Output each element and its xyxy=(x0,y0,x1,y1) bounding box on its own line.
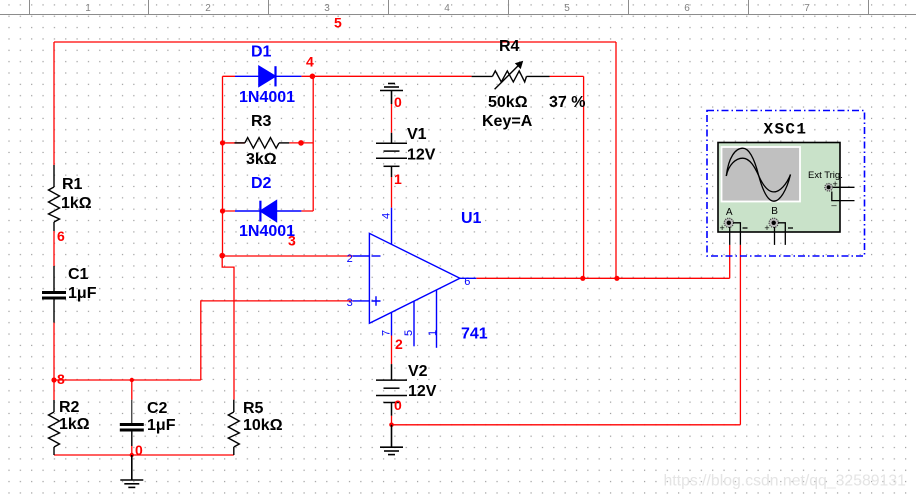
scope channel B terminal xyxy=(764,206,793,245)
svg-text:6: 6 xyxy=(464,276,470,288)
svg-text:https://blog.csdn.net/qq_32589: https://blog.csdn.net/qq_32589131 xyxy=(664,473,907,490)
svg-text:37 %: 37 % xyxy=(549,94,585,111)
wire R3 row xyxy=(289,142,313,144)
svg-text:5: 5 xyxy=(564,3,570,14)
svg-text:4: 4 xyxy=(444,3,450,14)
svg-text:D1: D1 xyxy=(251,44,272,61)
svg-text:XSC1: XSC1 xyxy=(764,121,808,139)
junction C2 top xyxy=(130,378,134,382)
capacitor C2 xyxy=(120,400,144,446)
capacitor C1 xyxy=(42,266,66,323)
svg-text:741: 741 xyxy=(461,326,488,343)
svg-text:R5: R5 xyxy=(243,400,264,417)
node 0 junction V2 ground xyxy=(389,423,394,428)
svg-text:5: 5 xyxy=(334,15,342,31)
svg-text:R3: R3 xyxy=(251,113,272,130)
scope ext trig terminal xyxy=(825,179,855,206)
wire node8 up to pin3 xyxy=(201,301,353,380)
wire bottom row net 0 xyxy=(54,454,234,456)
scope waveform B xyxy=(726,158,790,192)
svg-text:C2: C2 xyxy=(147,400,168,417)
wire C1 bottom to node 8 xyxy=(53,323,55,380)
wire D2 row xyxy=(223,210,314,212)
svg-text:1μF: 1μF xyxy=(68,285,97,302)
resistor R2 xyxy=(49,400,60,455)
ruler bar xyxy=(0,0,916,15)
scope channel A terminal xyxy=(720,207,748,245)
wire R2 top red xyxy=(53,380,55,400)
svg-text:3kΩ: 3kΩ xyxy=(246,151,277,168)
svg-text:R1: R1 xyxy=(62,176,83,193)
node 8 junction xyxy=(51,377,56,382)
svg-text:6: 6 xyxy=(684,3,690,14)
node 0 junction C2 bottom xyxy=(130,453,134,457)
svg-text:7: 7 xyxy=(804,3,810,14)
svg-text:50kΩ: 50kΩ xyxy=(488,94,528,111)
wire jog to R5 xyxy=(222,256,234,400)
wire V2 top red xyxy=(391,336,393,365)
diode D2 xyxy=(235,201,301,222)
wire R4 right rail xyxy=(550,76,584,278)
svg-text:0: 0 xyxy=(135,442,143,458)
svg-text:Key=A: Key=A xyxy=(482,113,533,130)
svg-text:2: 2 xyxy=(347,253,353,265)
resistor R3 xyxy=(223,138,290,149)
ground above V1 xyxy=(380,84,403,105)
svg-text:3: 3 xyxy=(347,297,353,309)
wire net5 top xyxy=(54,42,740,455)
oscilloscope XSC1 dashed selection box xyxy=(707,111,865,257)
svg-text:1: 1 xyxy=(85,3,91,14)
svg-text:6: 6 xyxy=(57,228,65,244)
junction output-net5 rail xyxy=(614,276,619,281)
svg-text:5: 5 xyxy=(403,330,415,336)
svg-text:V2: V2 xyxy=(408,363,428,380)
potentiometer R4 xyxy=(472,61,550,90)
svg-text:0: 0 xyxy=(394,94,402,110)
svg-text:U1: U1 xyxy=(461,210,482,227)
wire node4 to R4 xyxy=(313,75,471,77)
svg-text:C1: C1 xyxy=(68,266,89,283)
wire diode-box right rail xyxy=(312,76,314,211)
svg-text:3: 3 xyxy=(324,3,330,14)
svg-text:B: B xyxy=(771,206,778,217)
wire scope A plus xyxy=(729,245,731,278)
svg-text:1: 1 xyxy=(394,171,402,187)
wire V1 top red xyxy=(391,104,393,133)
svg-text:4: 4 xyxy=(306,54,314,70)
svg-text:+: + xyxy=(764,223,769,233)
diode D1 xyxy=(235,66,301,86)
svg-text:+: + xyxy=(720,223,725,233)
scope waveform A xyxy=(726,148,790,201)
junction rail-R3 left xyxy=(220,140,225,145)
wire R1 top xyxy=(53,42,55,165)
wire V1 bottom red xyxy=(391,177,393,208)
svg-text:1kΩ: 1kΩ xyxy=(61,195,92,212)
svg-text:12V: 12V xyxy=(407,147,436,164)
svg-text:R2: R2 xyxy=(59,399,80,416)
wire scope A minus down xyxy=(739,245,741,425)
svg-text:R4: R4 xyxy=(499,38,520,55)
node 4 junction xyxy=(310,74,316,80)
resistor R5 xyxy=(228,400,239,455)
svg-text:1kΩ: 1kΩ xyxy=(59,416,90,433)
op-amp U1 xyxy=(353,208,477,348)
svg-text:12V: 12V xyxy=(408,383,437,400)
ground below C2 xyxy=(120,455,143,487)
svg-text:3: 3 xyxy=(288,233,296,249)
wire C2 top xyxy=(131,380,133,400)
oscilloscope body xyxy=(718,143,840,233)
wire V2 bottom red xyxy=(391,416,393,425)
resistor R1 xyxy=(49,165,60,231)
ground below V2 xyxy=(380,425,403,455)
svg-text:1N4001: 1N4001 xyxy=(239,223,295,240)
svg-text:D2: D2 xyxy=(251,175,272,192)
wire R1 bottom to C1 (net 6) xyxy=(53,231,55,266)
junction output-R4 rail xyxy=(580,276,585,281)
svg-text:1μF: 1μF xyxy=(147,417,176,434)
wire node8 row xyxy=(54,379,201,381)
wire ground row xyxy=(392,424,741,426)
svg-text:0: 0 xyxy=(394,397,402,413)
wire output row net 5 xyxy=(476,277,729,279)
wire net3 pin2 row xyxy=(222,255,352,257)
svg-text:2: 2 xyxy=(205,3,211,14)
svg-text:1: 1 xyxy=(427,330,439,336)
node 3 junction xyxy=(219,253,225,259)
wire D1 row xyxy=(223,75,314,77)
battery V1 xyxy=(376,133,407,177)
junction R3 right xyxy=(298,140,304,146)
svg-text:1N4001: 1N4001 xyxy=(239,89,295,106)
wire diode-box left rail xyxy=(222,76,224,255)
svg-text:2: 2 xyxy=(395,336,403,352)
svg-text:10kΩ: 10kΩ xyxy=(243,417,283,434)
junction rail-D2 left xyxy=(220,208,225,213)
svg-text:7: 7 xyxy=(381,330,393,336)
scope screen xyxy=(722,147,801,202)
svg-text:V1: V1 xyxy=(407,126,427,143)
ruler numbers xyxy=(85,3,810,14)
svg-text:A: A xyxy=(726,207,733,218)
battery V2 xyxy=(376,364,407,416)
svg-text:8: 8 xyxy=(57,371,65,387)
svg-text:4: 4 xyxy=(381,213,393,219)
wire C2 bottom xyxy=(131,446,133,455)
